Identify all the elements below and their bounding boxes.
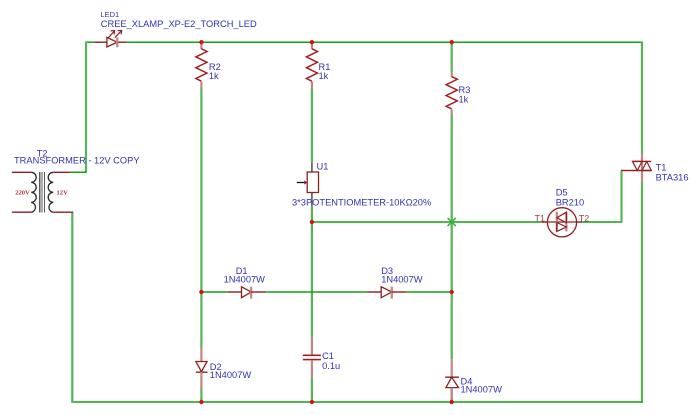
diode D2 [196, 348, 208, 389]
svg-text:1N4007W: 1N4007W [381, 274, 423, 284]
svg-text:1k: 1k [209, 71, 219, 81]
svg-text:R3: R3 [459, 85, 471, 95]
wire right edge upper [641, 42, 643, 154]
wire mid rail U1 to diac [311, 221, 542, 223]
diode D1 [227, 287, 266, 299]
wire branch x=312 between R1 and U1 [311, 88, 313, 162]
primary lead bottom [12, 211, 31, 213]
secondary lead bottom [53, 211, 73, 213]
diode D4 [445, 359, 459, 402]
wire branch x=201 between node and D2 [200, 292, 202, 348]
junction node top-R2 [199, 40, 203, 44]
primary winding [31, 172, 36, 212]
diode D3 [367, 287, 406, 299]
resistor R3 [446, 73, 457, 116]
wire branch x=201 below D2 [200, 389, 202, 403]
junction node bottom-C1 [310, 400, 314, 404]
wire branch x=452 below D4 [451, 388, 453, 402]
resistor R1 [306, 42, 317, 88]
wire transformer secondary top [71, 171, 87, 173]
wire D-row right [406, 291, 451, 293]
secondary winding [48, 172, 53, 212]
wire branch x=452 D-row to D4 [451, 292, 453, 359]
wire bottom rail [71, 401, 642, 403]
wire left vertical lower [71, 212, 73, 403]
core line 2 [41, 172, 42, 213]
crossing marker X [448, 218, 456, 226]
junction node Drow-right [450, 290, 454, 294]
svg-text:TRANSFORMER - 12V COPY: TRANSFORMER - 12V COPY [14, 156, 140, 166]
junction node top-R3 [450, 40, 454, 44]
wire D-row middle [266, 291, 367, 293]
wire right edge lower [641, 183, 643, 403]
svg-text:T2: T2 [579, 214, 590, 224]
wire D-row left [201, 291, 227, 293]
svg-text:CREE_XLAMP_XP-E2_TORCH_LED: CREE_XLAMP_XP-E2_TORCH_LED [101, 19, 257, 29]
svg-text:1k: 1k [319, 71, 329, 81]
wire branch x=312 below C1 [311, 378, 313, 402]
LED LED1 [94, 30, 126, 47]
svg-text:BTA316: BTA316 [656, 173, 689, 183]
svg-text:0.1u: 0.1u [322, 361, 340, 371]
wire branch x=201 between R2 and node [200, 88, 202, 292]
core line 1 [39, 172, 40, 213]
junction node top-R1 [310, 40, 314, 44]
capacitor C1 [303, 337, 321, 377]
svg-text:1N4007W: 1N4007W [461, 384, 503, 394]
svg-text:T1: T1 [656, 162, 667, 172]
svg-text:1N4007W: 1N4007W [224, 274, 266, 284]
potentiometer U1 [297, 162, 319, 206]
svg-text:T1: T1 [535, 214, 546, 224]
svg-text:C1: C1 [322, 351, 334, 361]
svg-text:1k: 1k [459, 95, 469, 105]
svg-text:12V: 12V [57, 190, 69, 197]
primary lead top [12, 171, 31, 173]
svg-text:1N4007W: 1N4007W [210, 370, 252, 380]
diac D5 [542, 208, 583, 237]
wire top rail [127, 41, 643, 43]
wire branch x=452 below top rail to R3 [451, 42, 453, 72]
core line 3 [44, 172, 45, 213]
wire branch x=452 R3 to D-row [451, 115, 453, 292]
transformer T2 [12, 172, 73, 213]
wire left vertical upper [85, 42, 87, 173]
wire diac to gate corner [582, 221, 622, 223]
svg-text:220V: 220V [15, 190, 30, 197]
triac T1 [621, 153, 652, 183]
junction node Drow-left [199, 290, 203, 294]
svg-text:BR210: BR210 [556, 198, 584, 208]
wire branch x=312 below U1 to C1 [311, 207, 313, 338]
resistor R2 [196, 42, 207, 88]
junction node mid-U1 [310, 220, 314, 224]
svg-text:D5: D5 [556, 188, 568, 198]
junction node bottom-D4 [450, 400, 454, 404]
junction node bottom-D2 [199, 400, 203, 404]
svg-text:U1: U1 [317, 162, 329, 172]
svg-text:3*3POTENTIOMETER-10KΩ20%: 3*3POTENTIOMETER-10KΩ20% [292, 197, 431, 207]
wire top rail left segment [85, 41, 94, 43]
secondary lead top [53, 171, 70, 173]
wire gate vertical [620, 171, 622, 223]
